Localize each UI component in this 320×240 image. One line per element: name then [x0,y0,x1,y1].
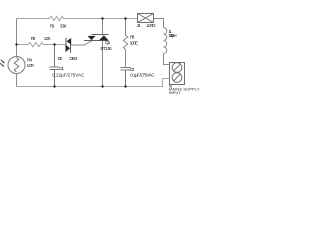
svg-text:100E: 100E [130,40,139,45]
svg-text:0.1µF/275VAC: 0.1µF/275VAC [130,73,154,78]
svg-text:Q1: Q1 [105,40,111,45]
svg-text:INPUT: INPUT [169,90,182,95]
svg-text:D2: D2 [58,56,63,61]
svg-text:100µH: 100µH [169,33,177,38]
svg-text:0.22µF/275VAC: 0.22µF/275VAC [52,72,84,77]
svg-text:R4: R4 [27,57,33,62]
svg-text:R1: R1 [50,24,55,29]
svg-text:12K: 12K [44,36,52,41]
svg-text:33K: 33K [60,24,68,29]
svg-text:BT136: BT136 [100,46,112,51]
svg-text:R3: R3 [130,34,135,39]
svg-text:C1: C1 [59,66,64,71]
svg-text:DB3: DB3 [69,56,77,61]
svg-text:LOAD: LOAD [147,23,157,28]
svg-text:Z1: Z1 [137,23,141,28]
svg-text:R2: R2 [31,36,36,41]
svg-text:LDR: LDR [27,63,35,68]
svg-text:C2: C2 [130,67,135,72]
